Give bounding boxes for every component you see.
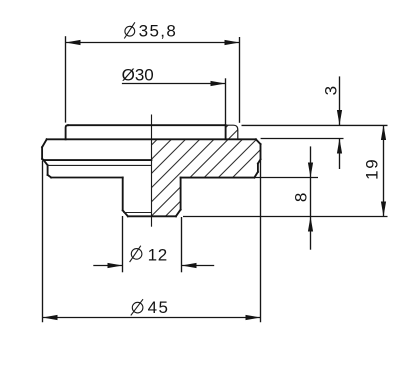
dia symbol 35.8: [124, 22, 135, 38]
flange bottom right: [181, 177, 255, 179]
dia35.8 right arrow: [225, 40, 240, 45]
dia12 dim line left: [93, 265, 122, 267]
svg-text:45: 45: [148, 298, 170, 317]
boss chamfer right: [176, 210, 181, 217]
dia12 ext right: [181, 217, 183, 272]
centerline: [151, 115, 153, 227]
dia45 left arrow: [43, 315, 58, 320]
flange bottom left: [51, 177, 123, 179]
svg-text:35,8: 35,8: [139, 21, 178, 40]
boss chamfer circle line: [123, 212, 151, 214]
svg-text:19: 19: [362, 158, 381, 180]
left step edge: [47, 165, 49, 175]
dim19 bottom arrow (down): [381, 202, 386, 217]
svg-text:3: 3: [321, 85, 340, 95]
left small chamfer: [42, 159, 44, 160]
flange top: [47, 138, 256, 140]
dia30 extension right: [225, 78, 227, 124]
arrowheads: [43, 40, 387, 320]
svg-text:Ø30: Ø30: [122, 65, 154, 84]
dia45 ext right: [260, 161, 262, 323]
boss bottom: [128, 215, 176, 217]
silhouette line A: [44, 159, 152, 161]
dia45 right arrow: [246, 315, 261, 320]
dia45 dim line: [43, 317, 261, 319]
dim3 upper arrow (down): [337, 110, 342, 125]
hatch lines (section lining, 45 deg): [67, 115, 296, 230]
rim tab outline (thin): [226, 125, 238, 139]
left bottom chamfer: [48, 175, 52, 178]
dim 3 shafts: [339, 76, 341, 125]
right step chamfer: [258, 159, 261, 163]
dim 8 line: [310, 146, 312, 249]
ext line rim top right: [242, 124, 388, 126]
rim top: [68, 124, 226, 126]
ext line flange bottom right: [255, 177, 318, 179]
dia12 left arrow (right): [108, 263, 123, 268]
svg-text:8: 8: [292, 192, 311, 202]
dia12 ext left: [122, 216, 124, 272]
dia35.8 left arrow: [66, 40, 81, 45]
right bottom chamfer: [254, 172, 258, 178]
svg-text:12: 12: [148, 245, 168, 264]
dia30 right arrow: [211, 81, 226, 86]
left top chamfer: [42, 139, 47, 147]
dim8 upper arrow (down): [308, 163, 313, 178]
right step edge: [257, 164, 259, 172]
dim8 lower arrow (up): [308, 217, 313, 232]
dim3 lower arrow (up): [337, 139, 342, 154]
ext line flange top right: [261, 138, 344, 140]
dia12 right arrow (left): [182, 263, 197, 268]
part outline: thick: [42, 125, 260, 216]
right OD edge: [260, 144, 262, 159]
dia35.8 dimension line: [66, 42, 240, 44]
dim 19 line: [383, 125, 385, 217]
left OD edge: [41, 147, 43, 159]
boss chamfer left: [123, 210, 128, 216]
right top chamfer: [256, 139, 261, 144]
dia30 dimension line: [122, 83, 226, 85]
dia12 dim line right: [182, 265, 215, 267]
dia symbol 45: [131, 299, 143, 315]
ext line boss bottom right: [183, 216, 388, 218]
silhouette line B: [48, 164, 152, 166]
dia45 ext left: [42, 161, 44, 323]
rim inner cut edge: [225, 125, 227, 139]
rim left edge: [66, 125, 68, 139]
chamfer A-B: [44, 160, 48, 165]
boss left edge: [122, 178, 124, 211]
dia symbol 12: [130, 246, 142, 262]
dia35.8 extension right: [239, 37, 241, 123]
dia35.8 extension left: [65, 36, 67, 122]
boss right edge: [180, 178, 182, 210]
dim19 top arrow (up): [381, 125, 386, 140]
